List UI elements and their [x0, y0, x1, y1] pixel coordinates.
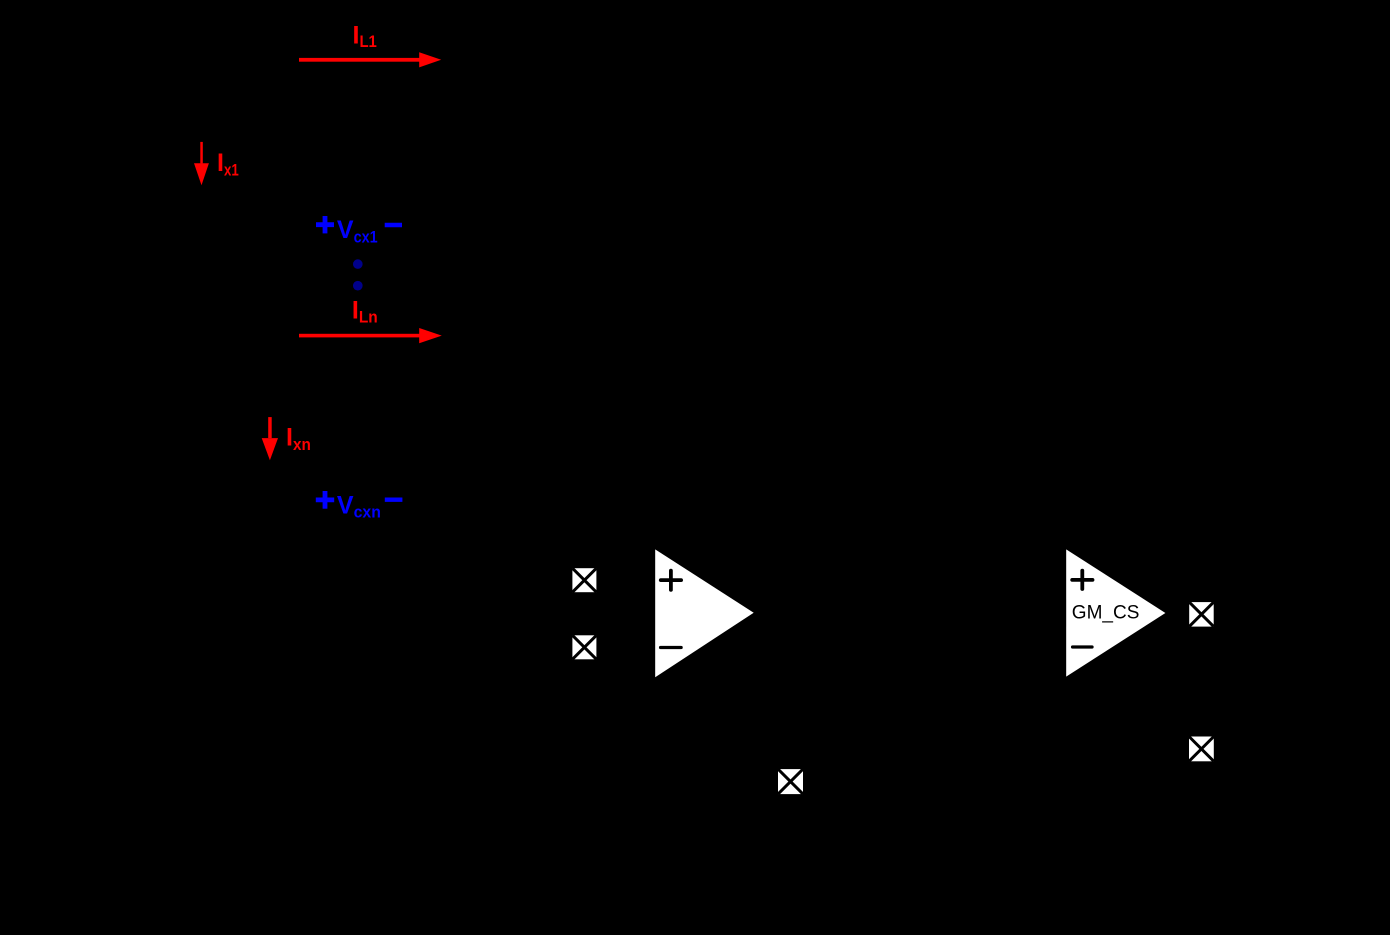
op-amp U1 minus symbol [661, 646, 682, 649]
current arrow Ix1 [194, 142, 209, 185]
op-amp U1 plus symbol [661, 571, 681, 590]
svg-text:GM_CS: GM_CS [1072, 603, 1140, 624]
minus sign Vcxn [385, 498, 403, 502]
plus sign Vcxn [316, 491, 334, 509]
current arrow Ixn [262, 417, 278, 460]
port terminal X2 (op-amp U1 minus input) [572, 635, 596, 659]
op-amp U2 minus symbol [1073, 645, 1092, 648]
ellipsis dot 2 [353, 281, 363, 291]
op-amp U2 plus symbol [1072, 571, 1092, 589]
plus sign Vcx1 [316, 216, 334, 233]
current arrow ILn [299, 328, 442, 343]
port terminal X3 (node below) [778, 769, 803, 794]
ellipsis dot 1 [353, 259, 363, 269]
current arrow IL1 [299, 52, 441, 67]
port terminal X1 (op-amp U1 plus input) [572, 568, 596, 592]
port terminal X5 (node lower right) [1189, 737, 1214, 762]
op-amp U1 [655, 549, 754, 677]
port terminal X4 (op-amp U2 output) [1189, 602, 1214, 627]
minus sign Vcx1 [385, 223, 402, 227]
op-amp U2 GM_CS [1066, 549, 1165, 676]
